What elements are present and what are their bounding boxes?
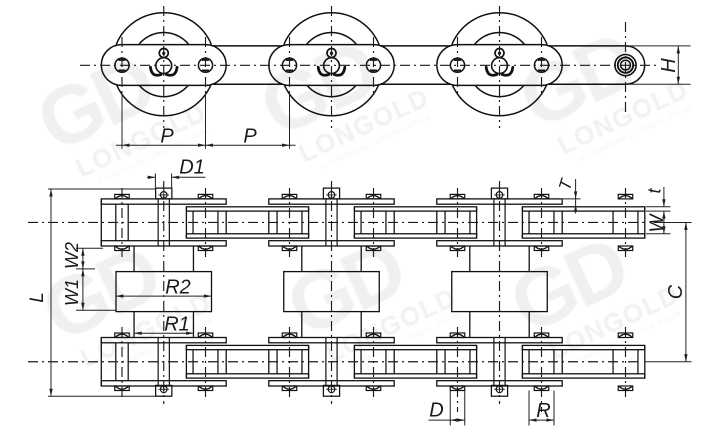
pin 5 side view (bush circle with flats): [450, 58, 464, 72]
roller unit 1: brand emblem: [150, 49, 177, 76]
extension lines for C: [654, 221, 692, 223]
roller unit 1: large roller circle (flange): [116, 13, 211, 45]
end pin vertical center line (top view): [625, 22, 627, 112]
pin 5 vertical center line (top strand): [457, 188, 459, 257]
unit 3 vertical center line (top view): [499, 6, 501, 128]
bottom strand: pin 2 rivet head bottom: [198, 386, 213, 391]
pin 1 vertical center line (bottom strand): [121, 327, 123, 398]
bottom strand: inner plate end edge at x=268.8: [268, 350, 270, 374]
pin 2 vertical center line (bottom strand): [205, 327, 207, 398]
end pin side view (concentric circles): [615, 55, 636, 76]
pin 4 vertical center line (bottom strand): [373, 327, 375, 398]
extension line for P dimension: [289, 95, 291, 149]
svg-text:R: R: [536, 400, 550, 422]
top strand: roller axle pin at unit 2: [325, 199, 327, 246]
dimension line W1: [82, 269, 84, 310]
bottom strand: pin 3 roller bushing: [276, 350, 278, 374]
top strand: pin 6 rivet head bottom: [534, 246, 549, 251]
dimension line H: [677, 46, 679, 84]
pin 2 vertical center line (top strand): [205, 188, 207, 257]
top strand: square axle head unit 2: [323, 188, 339, 199]
top strand: inner plate end edge at x=268.8: [268, 211, 270, 234]
bottom strand: pin 5 roller bushing: [444, 350, 446, 374]
svg-text:R1: R1: [164, 314, 190, 336]
svg-text:P: P: [243, 126, 257, 148]
inner link plate 2 (capsule outline): [269, 45, 394, 86]
bottom strand: square axle head unit 2: [323, 385, 339, 396]
bottom strand: outer plate end edge at x=186.4: [185, 345, 187, 378]
top strand: outer link plate 3 bottom edge bar: [522, 234, 644, 238]
top strand: pin 5 rivet head bottom: [450, 246, 465, 251]
bottom strand: pin 2 rivet head top: [198, 333, 213, 338]
bottom strand: inner plate end edge at x=394.2: [393, 350, 395, 374]
dimension line P (pitch): [116, 144, 296, 146]
top strand: outer plate end edge at x=354.4: [353, 207, 355, 238]
bottom strand: inner plate end edge at x=436.8: [436, 350, 438, 374]
dimension line W: [663, 211, 665, 234]
top strand: outer plate end edge at x=476.6: [476, 207, 478, 238]
extension line for T: [563, 198, 581, 200]
bottom strand horizontal center line: [28, 361, 642, 363]
pin 2 side view (bush circle with flats): [198, 58, 212, 72]
pin 3 vertical center line (top view): [289, 37, 291, 95]
bottom strand: pin 4 roller bushing: [360, 350, 362, 374]
svg-text:H: H: [658, 58, 680, 73]
pin 1 side view (bush circle with flats): [115, 58, 129, 72]
roller unit 3: large roller circle (flange): [452, 13, 547, 45]
svg-text:P: P: [160, 126, 174, 148]
outer link plate between units 1-2 (top and bottom edges): [213, 45, 283, 47]
top strand: pin 5 rivet head top: [450, 194, 465, 199]
roller unit 1: inner roller circle: [139, 32, 189, 44]
svg-text:L: L: [27, 292, 48, 303]
roller unit 2: brand emblem: [318, 49, 345, 76]
top strand: pin 1 body: [115, 204, 117, 241]
small roller R1 column unit 3 (upper): [469, 246, 471, 272]
extension lines for R: [528, 391, 530, 426]
pin 4 side view (bush circle with flats): [366, 58, 380, 72]
bottom strand: right end wall: [644, 345, 646, 378]
top strand: inner link plate 1 bottom edge bar: [101, 241, 226, 246]
unit 1 vertical center line (top view): [163, 6, 165, 128]
top strand: pin 6 rivet head top: [534, 194, 549, 199]
bottom strand: outer link plate 1 top edge bar: [186, 345, 308, 349]
bottom strand: pin 5 rivet head top: [450, 333, 465, 338]
top view: horizontal center line: [80, 64, 659, 66]
top strand: pin 4 roller bushing: [360, 211, 362, 234]
top strand: pin 3 roller bushing: [276, 211, 278, 234]
top strand: outer plate end edge at x=522.4: [521, 207, 523, 238]
large roller R2 plan rectangle unit 2: [284, 272, 380, 312]
top strand: pin 7 rivet head bottom: [618, 246, 633, 251]
extension lines for W2 and W1: [76, 247, 103, 249]
roller unit 3: brand emblem: [486, 49, 513, 76]
bottom strand: inner plate end edge at x=562.2: [561, 350, 563, 374]
bottom strand: pin 1 rivet head bottom: [115, 386, 130, 391]
top strand: left end wall: [100, 199, 102, 246]
pin 6 vertical center line (top view): [541, 37, 543, 95]
pin 4 vertical center line (top view): [373, 37, 375, 95]
bottom strand: pin 1 rivet head top: [115, 333, 130, 338]
pin 3 side view (bush circle with flats): [282, 58, 296, 72]
extension line for P dimension: [121, 95, 123, 149]
roller unit 3: inner roller circle: [474, 32, 524, 44]
small roller R1 column unit 1 (lower): [133, 312, 135, 338]
top strand: roller axle pin at unit 1: [157, 199, 159, 246]
svg-text:t: t: [645, 188, 665, 194]
top strand: outer link plate 2 top edge bar: [354, 207, 476, 211]
dimension line R1: [134, 332, 193, 334]
dimension line W2: [82, 248, 84, 269]
top strand: right end wall: [644, 207, 646, 238]
svg-text:C: C: [665, 284, 687, 299]
roller unit 2: inner roller circle: [306, 32, 356, 44]
bottom strand: pin 7 roller bushing: [612, 350, 614, 374]
dimension line D: [429, 419, 465, 421]
bottom strand: inner link plate 1 bottom edge bar: [101, 381, 226, 386]
inner link plate 1 (capsule outline): [101, 45, 226, 86]
bottom strand: outer link plate 3 top edge bar: [522, 345, 644, 349]
small roller R1 column unit 1 (upper): [133, 246, 135, 272]
svg-text:W1: W1: [62, 279, 82, 306]
top strand: pin 1 rivet head top: [115, 194, 130, 199]
top strand: inner plate end edge at x=436.8: [436, 211, 438, 234]
extension lines for t and W: [646, 206, 671, 208]
extension lines for D: [449, 391, 451, 426]
pin 7 vertical center line (top strand): [625, 188, 627, 257]
pin 3 vertical center line (bottom strand): [289, 327, 291, 398]
bottom strand: pin 6 rivet head top: [534, 333, 549, 338]
pin 5 vertical center line (top view): [457, 37, 459, 95]
top strand: outer plate end edge at x=308.6: [308, 207, 310, 238]
pin 7 vertical center line (bottom strand): [625, 327, 627, 398]
unit 3 vertical center line (plan view): [499, 181, 501, 404]
svg-text:D1: D1: [179, 157, 205, 179]
top strand: inner link plate 1 top edge bar: [101, 199, 226, 204]
small roller R1 column unit 3 (lower): [469, 312, 471, 338]
pin 2 vertical center line (top view): [205, 37, 207, 95]
pin 6 vertical center line (bottom strand): [541, 327, 543, 412]
bottom strand: outer link plate 3 bottom edge bar: [522, 374, 644, 378]
inner link plate 3 (capsule outline): [437, 45, 562, 86]
bottom strand: outer plate end edge at x=476.6: [476, 345, 478, 378]
top strand horizontal center line: [28, 221, 648, 223]
top strand: pin 7 roller bushing: [612, 211, 614, 234]
top strand: square axle head unit 3: [491, 188, 507, 199]
pin 3 vertical center line (top strand): [289, 188, 291, 257]
bottom strand: pin 3 rivet head top: [282, 333, 297, 338]
bottom strand: inner link plate 1 top edge bar: [101, 338, 226, 343]
bottom strand: left end wall: [100, 338, 102, 387]
svg-text:R2: R2: [165, 277, 191, 299]
svg-text:T: T: [555, 176, 577, 193]
dimension line R: [529, 419, 554, 421]
top strand: square axle head unit 1: [156, 188, 172, 199]
top strand: inner plate end edge at x=394.2: [393, 211, 395, 234]
bottom strand: outer plate end edge at x=522.4: [521, 345, 523, 378]
extension line for P dimension: [205, 95, 207, 149]
top strand: pin 1 rivet head bottom: [115, 246, 130, 251]
pin 6 side view (bush circle with flats): [534, 58, 548, 72]
pin 6 vertical center line (top strand): [541, 188, 543, 257]
svg-text:D: D: [429, 400, 443, 422]
top strand: outer link plate 1 bottom edge bar: [186, 234, 308, 238]
top strand: inner link plate 3 bottom edge bar: [437, 241, 562, 246]
large roller R2 plan rectangle unit 3: [452, 272, 548, 312]
top strand: outer link plate 3 top edge bar: [522, 207, 644, 211]
bottom strand: pin 7 rivet head bottom: [618, 386, 633, 391]
bottom strand: pin 2 roller bushing: [192, 350, 194, 374]
top strand: pin 2 rivet head bottom: [198, 246, 213, 251]
bottom strand: square axle head unit 1: [156, 385, 172, 396]
large roller R2 plan rectangle unit 1: [116, 272, 212, 312]
bottom strand: outer link plate 2 top edge bar: [354, 345, 476, 349]
dimension line C: [685, 222, 687, 361]
dimension line L: [50, 189, 52, 396]
outer link plate between units 2-3 (top and bottom edges): [381, 45, 451, 47]
bottom strand: pin 6 rivet head bottom: [534, 386, 549, 391]
top strand: pin 3 rivet head bottom: [282, 246, 297, 251]
bottom strand: outer link plate 2 bottom edge bar: [354, 374, 476, 378]
roller unit 2: large roller circle (flange): [284, 13, 379, 45]
top strand: inner plate end edge at x=562.2: [561, 211, 563, 234]
bottom strand: outer plate end edge at x=354.4: [353, 345, 355, 378]
bottom strand: roller axle pin at unit 2: [325, 338, 327, 387]
bottom strand: roller axle pin at unit 3: [493, 338, 495, 387]
bottom strand: roller axle pin at unit 1: [157, 338, 159, 387]
top strand: pin 4 rivet head top: [366, 194, 381, 199]
top strand: inner link plate 2 bottom edge bar: [269, 241, 394, 246]
bottom strand: pin 1 body: [115, 343, 117, 381]
top strand: inner link plate 3 top edge bar: [437, 199, 562, 204]
dimension line T: [575, 179, 577, 214]
top strand: pin 6 roller bushing: [528, 211, 530, 234]
dimension line t: [663, 187, 665, 207]
bottom strand: outer link plate 1 bottom edge bar: [186, 374, 308, 378]
bottom strand: pin 3 rivet head bottom: [282, 386, 297, 391]
extension lines for H dimension: [630, 45, 691, 47]
small roller R1 column unit 2 (upper): [301, 246, 303, 272]
extension lines for D1: [154, 174, 156, 189]
unit 2 vertical center line (plan view): [331, 181, 333, 404]
bottom strand: inner link plate 3 top edge bar: [437, 338, 562, 343]
top strand: inner link plate 2 top edge bar: [269, 199, 394, 204]
unit 2 vertical center line (top view): [331, 6, 333, 128]
top strand: pin 5 roller bushing: [444, 211, 446, 234]
top strand: pin 3 rivet head top: [282, 194, 297, 199]
dimension line R2: [116, 295, 211, 297]
pin 5 vertical center line (bottom strand): [457, 327, 459, 412]
bottom strand: pin 7 rivet head top: [618, 333, 633, 338]
bottom strand: inner plate end edge at x=226.2: [225, 350, 227, 374]
top strand: outer link plate 1 top edge bar: [186, 207, 308, 211]
pin 1 vertical center line (top view): [121, 37, 123, 95]
top strand: pin 4 rivet head bottom: [366, 246, 381, 251]
top strand: inner plate end edge at x=226.2: [225, 211, 227, 234]
top strand: pin 2 rivet head top: [198, 194, 213, 199]
bottom strand: square axle head unit 3: [491, 385, 507, 396]
top strand: pin 2 roller bushing: [192, 211, 194, 234]
top strand: outer plate end edge at x=186.4: [185, 207, 187, 238]
pin 1 vertical center line (top strand): [121, 188, 123, 257]
pin 4 vertical center line (top strand): [373, 188, 375, 257]
extension lines for L: [48, 188, 155, 190]
top strand: pin 7 rivet head top: [618, 194, 633, 199]
bottom strand: pin 5 rivet head bottom: [450, 386, 465, 391]
bottom strand: pin 4 rivet head bottom: [366, 386, 381, 391]
bottom strand: inner link plate 3 bottom edge bar: [437, 381, 562, 386]
end outer link plate with rounded end: [549, 45, 626, 47]
top strand: roller axle pin at unit 3: [493, 199, 495, 246]
bottom strand: inner link plate 2 top edge bar: [269, 338, 394, 343]
dimension line D1: [147, 176, 155, 178]
unit 1 vertical center line (plan view): [163, 181, 165, 404]
bottom strand: outer plate end edge at x=308.6: [308, 345, 310, 378]
bottom strand: pin 4 rivet head top: [366, 333, 381, 338]
small roller R1 column unit 2 (lower): [301, 312, 303, 338]
bottom strand: inner link plate 2 bottom edge bar: [269, 381, 394, 386]
svg-text:W2: W2: [62, 242, 82, 269]
bottom strand: pin 6 roller bushing: [528, 350, 530, 374]
top strand: outer link plate 2 bottom edge bar: [354, 234, 476, 238]
